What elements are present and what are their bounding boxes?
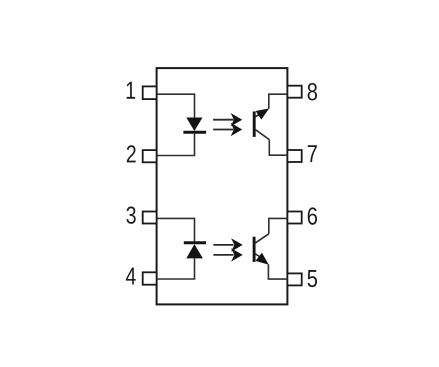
- pin 5 box: [287, 273, 301, 285]
- pin 6 label: [308, 207, 317, 224]
- light arrow A3 shaft: [213, 244, 233, 246]
- pin 4 box: [143, 272, 157, 284]
- Q1 collector lead: [255, 129, 269, 139]
- light arrow A2 head: [231, 123, 243, 136]
- light arrow A1 shaft: [213, 119, 233, 121]
- pin 2 label: [127, 145, 136, 162]
- LED D1 cathode bar: [183, 131, 206, 134]
- pin 3 label: [126, 206, 135, 223]
- light arrow A4 head: [231, 248, 243, 261]
- wire pin3 to LED2 cathode: [157, 218, 195, 241]
- wire pin1 to LED1 anode: [157, 94, 195, 118]
- Q2 collector lead: [255, 234, 269, 244]
- pin 3 box: [143, 212, 157, 224]
- Q2 emitter arrow: [256, 253, 272, 269]
- phototransistor Q1 base bar: [253, 111, 256, 136]
- pin 4 label: [126, 268, 136, 285]
- LED D2 cathode bar: [184, 241, 206, 244]
- pin 7 label: [308, 145, 317, 162]
- LED D1 anode triangle: [186, 118, 202, 132]
- Q2 emitter lead: [255, 254, 263, 259]
- phototransistor Q2 base bar: [253, 237, 256, 262]
- wire LED1 cathode to pin2: [157, 134, 195, 156]
- wire Q1 emitter to pin8: [269, 94, 288, 108]
- pin 1 label: [127, 82, 135, 99]
- light arrow A1 head: [231, 113, 243, 126]
- pin 2 box: [143, 150, 157, 162]
- pin 8 label: [308, 83, 317, 100]
- Q1 emitter lead: [255, 113, 263, 118]
- IC body U1: [157, 68, 288, 304]
- wire Q1 collector to pin7: [269, 140, 287, 156]
- light arrow A2 shaft: [213, 129, 233, 131]
- pin 5 label: [308, 270, 318, 287]
- wire Q2 emitter to pin5: [268, 264, 287, 279]
- pin 8 box: [287, 86, 301, 98]
- light arrow A3 head: [231, 238, 243, 251]
- light arrow A4 shaft: [213, 254, 233, 256]
- LED D2 anode triangle: [186, 244, 203, 258]
- wire LED2 anode to pin4: [157, 258, 195, 279]
- pin 1 box: [143, 86, 157, 99]
- Q1 emitter arrow: [256, 104, 272, 120]
- pin 6 box: [287, 212, 301, 224]
- wire pin6 to Q2 collector: [269, 218, 288, 233]
- pin 7 box: [287, 150, 301, 162]
